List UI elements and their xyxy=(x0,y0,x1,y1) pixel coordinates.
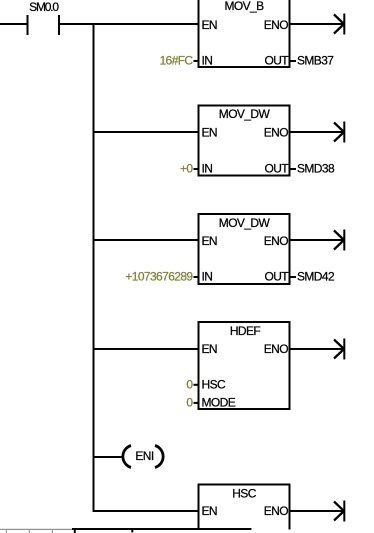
box HDEF U4 xyxy=(199,322,290,410)
arrow continuation HSC xyxy=(334,501,345,522)
coil ENI xyxy=(123,446,163,468)
gray tick 2 xyxy=(29,529,30,533)
bottom pane divider gray xyxy=(0,529,72,530)
box MOV_DW U2 xyxy=(199,106,290,176)
wire branch to MOV_DW1 EN xyxy=(93,131,199,133)
wire HDEF ENO to arrow xyxy=(291,348,344,350)
svg-text:EN: EN xyxy=(202,342,217,356)
svg-text:MOV_DW: MOV_DW xyxy=(219,216,271,230)
arrow continuation MOV_DW2 xyxy=(334,230,345,251)
box MOV_DW U3 xyxy=(199,214,290,284)
wire MOV_DW2 ENO to arrow xyxy=(291,239,344,241)
wire branch to HDEF EN xyxy=(93,348,199,350)
contact SM0.0 right bar xyxy=(58,15,60,35)
gray tick 1 xyxy=(6,529,7,533)
wire HSC ENO to arrow xyxy=(291,510,344,512)
contact SM0.0 left bar xyxy=(27,15,29,35)
svg-text:ENO: ENO xyxy=(264,126,288,140)
dash IN MOV_B xyxy=(194,60,199,62)
svg-text:ENI: ENI xyxy=(135,449,153,463)
svg-text:SMD38: SMD38 xyxy=(297,162,335,176)
svg-text:EN: EN xyxy=(202,126,217,140)
svg-text:16#FC: 16#FC xyxy=(159,54,193,68)
black tick at 74.8 xyxy=(74,528,76,533)
svg-text:MOV_B: MOV_B xyxy=(224,0,264,13)
wire trunk vertical xyxy=(93,23,95,512)
svg-text:HDEF: HDEF xyxy=(230,324,261,338)
dash IN MOV_DW2 xyxy=(194,276,199,278)
svg-text:EN: EN xyxy=(202,504,217,518)
svg-text:IN: IN xyxy=(202,270,213,284)
svg-text:IN: IN xyxy=(202,162,213,176)
svg-text:MOV_DW: MOV_DW xyxy=(219,107,271,121)
svg-text:OUT: OUT xyxy=(264,270,289,284)
svg-text:SMB37: SMB37 xyxy=(297,54,334,68)
svg-text:SMD42: SMD42 xyxy=(297,270,335,284)
svg-text:0: 0 xyxy=(186,378,193,392)
wire branch to HSC EN xyxy=(93,510,199,512)
bottom line black xyxy=(72,528,252,530)
dash HSC input xyxy=(194,384,199,386)
svg-text:MODE: MODE xyxy=(202,396,236,410)
wire branch to MOV_DW2 EN xyxy=(93,239,199,241)
wire branch to ENI coil xyxy=(93,456,122,458)
svg-text:EN: EN xyxy=(202,234,217,248)
svg-text:ENO: ENO xyxy=(264,18,288,32)
svg-text:EN: EN xyxy=(202,18,217,32)
wire MOV_B ENO to arrow xyxy=(291,23,344,25)
svg-text:IN: IN xyxy=(202,54,213,68)
arrow continuation MOV_DW1 xyxy=(334,122,345,143)
dash OUT MOV_DW2 xyxy=(291,276,297,278)
svg-text:0: 0 xyxy=(186,396,193,410)
gray tick 3 xyxy=(52,529,53,533)
svg-text:OUT: OUT xyxy=(264,162,289,176)
svg-text:+1073676289: +1073676289 xyxy=(125,270,193,284)
arrow continuation HDEF xyxy=(334,339,345,360)
svg-text:ENO: ENO xyxy=(264,504,288,518)
wire left rail to contact xyxy=(0,23,27,25)
svg-text:ENO: ENO xyxy=(264,234,288,248)
box HSC U5 (cut off at bottom) xyxy=(198,484,291,530)
svg-text:ENO: ENO xyxy=(264,342,288,356)
black tick at 132 xyxy=(131,529,133,533)
dash IN MOV_DW1 xyxy=(194,168,199,170)
box MOV_B U1 xyxy=(199,0,290,68)
wire MOV_DW1 ENO to arrow xyxy=(291,131,344,133)
dash MODE input xyxy=(194,402,199,404)
svg-text:HSC: HSC xyxy=(232,487,256,501)
wire contact to MOV_B EN xyxy=(60,23,199,25)
svg-text:HSC: HSC xyxy=(202,378,226,392)
svg-text:+0: +0 xyxy=(180,162,193,176)
arrow continuation MOV_B xyxy=(334,14,345,35)
svg-text:OUT: OUT xyxy=(264,54,289,68)
dash OUT MOV_B xyxy=(291,60,297,62)
dash OUT MOV_DW1 xyxy=(291,168,297,170)
svg-text:SM0.0: SM0.0 xyxy=(29,0,59,14)
